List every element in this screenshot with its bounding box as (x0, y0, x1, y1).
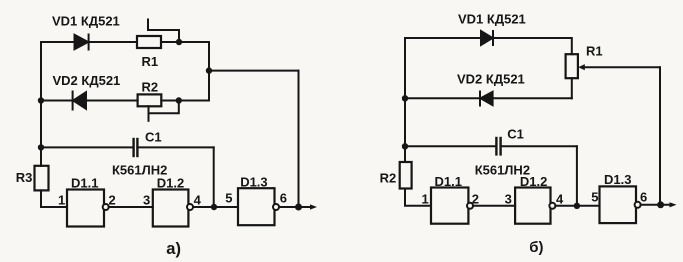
svg-text:6: 6 (640, 190, 647, 205)
svg-text:VD2 КД521: VD2 КД521 (53, 73, 121, 88)
inverter D1.2 a (153, 190, 193, 227)
wiper arrow R1 b (578, 64, 660, 70)
svg-text:C1: C1 (145, 130, 162, 145)
svg-text:5: 5 (591, 190, 598, 205)
node output wiper junction b (657, 201, 664, 208)
svg-text:VD1 КД521: VD1 КД521 (458, 12, 526, 27)
wire left vertical bus b (404, 38, 406, 162)
diode VD2 a (73, 92, 86, 110)
svg-text:R3: R3 (16, 170, 33, 185)
svg-text:D1.2: D1.2 (520, 174, 547, 189)
inverter D1.1 a (67, 190, 109, 227)
svg-text:D1.3: D1.3 (604, 172, 631, 187)
svg-text:б): б) (529, 239, 543, 256)
svg-text:4: 4 (194, 193, 202, 208)
wire second branch b (405, 97, 480, 99)
wire top branch left segment a (41, 41, 75, 43)
diode VD2 b (480, 92, 493, 106)
inverter D1.3 b (600, 186, 641, 223)
wire C1 left segment b (405, 145, 496, 147)
node left bus second branch junction a (38, 97, 44, 103)
inverter D1.3 a (238, 188, 279, 225)
svg-text:3: 3 (505, 192, 512, 207)
svg-text:R1: R1 (142, 54, 159, 69)
output arrow b (670, 202, 677, 207)
svg-text:D1.2: D1.2 (157, 176, 184, 191)
wire second branch left segment a (41, 100, 73, 102)
node C1 left junction b (402, 143, 408, 149)
wire R2 bottom to gate input b (405, 189, 431, 206)
wire D1.1 out to D1.2 in b (473, 205, 515, 207)
svg-text:5: 5 (225, 191, 232, 206)
wire feedback vertical to output a (298, 71, 300, 207)
svg-text:4: 4 (556, 192, 564, 207)
node R2 output junction (176, 97, 182, 103)
capacitor C1 a (134, 139, 138, 156)
wire R2 right segment (161, 100, 209, 102)
svg-text:1: 1 (58, 193, 65, 208)
output arrow a (310, 204, 317, 209)
diode VD1 b (481, 31, 493, 45)
svg-text:а): а) (166, 240, 181, 258)
resistor R2 a (138, 94, 162, 106)
node C1 left junction a (38, 144, 44, 150)
wire VD2 to R1 bottom b (493, 97, 572, 99)
svg-text:C1: C1 (507, 127, 524, 142)
svg-text:VD1 КД521: VD1 КД521 (52, 14, 120, 29)
svg-text:D1.3: D1.3 (240, 175, 267, 190)
wire R1 wiper tap (148, 20, 179, 43)
svg-text:2: 2 (472, 192, 479, 207)
wire VD1 to R1 (89, 41, 137, 43)
svg-text:2: 2 (109, 193, 116, 208)
wire R1 bottom to second branch b (571, 78, 573, 98)
wire R1 right segment (161, 41, 209, 43)
wire C1 right segment b (501, 145, 577, 147)
wire output a (279, 206, 311, 208)
inverter D1.2 b (515, 188, 555, 224)
wire D1.2 out to D1.3 in (193, 206, 238, 208)
svg-text:D1.1: D1.1 (71, 176, 98, 191)
node left bus second branch junction b (402, 95, 408, 101)
wire D1.2 out to D1.3 in b (555, 205, 599, 207)
svg-text:D1.1: D1.1 (435, 174, 462, 189)
wire branches merge vertical a (208, 42, 210, 101)
inverter D1.1 b (431, 188, 473, 224)
svg-text:1: 1 (422, 192, 429, 207)
resistor R3 a (35, 166, 49, 191)
svg-text:6: 6 (280, 191, 287, 206)
wire D1.1 out to D1.2 in (109, 206, 153, 208)
svg-text:R2: R2 (380, 171, 397, 186)
wire left vertical bus a (40, 42, 42, 166)
wire top branch left segment b (405, 37, 481, 39)
diode VD1 a (75, 35, 89, 50)
node output feedback junction a (295, 204, 302, 211)
node C1 feedback junction on gate chain a (211, 204, 217, 210)
wire VD2 to R2 (86, 100, 138, 102)
wire C1 drop to gate chain a (213, 147, 215, 207)
wire feedback horizontal a (209, 70, 299, 72)
svg-text:R1: R1 (586, 44, 603, 59)
wire R3 bottom to gate input a (41, 190, 67, 207)
node C1 feedback junction on gate chain b (574, 203, 580, 209)
wire output b (641, 204, 671, 206)
resistor R1 b (566, 54, 578, 78)
wire VD1 to R1 corner b (493, 38, 572, 54)
wire C1 left segment a (41, 146, 133, 148)
svg-text:VD2 КД521: VD2 КД521 (457, 72, 525, 87)
wire C1 right segment a (137, 146, 213, 148)
resistor R1 a (137, 36, 161, 48)
svg-text:R2: R2 (142, 80, 159, 95)
wire wiper vertical to output b (659, 67, 661, 205)
wire R2 wiper tap (149, 101, 179, 121)
resistor R2 b (400, 162, 412, 189)
svg-text:3: 3 (143, 193, 150, 208)
node feedback mid junction a (206, 67, 212, 73)
node R1 output junction (176, 39, 182, 45)
wire C1 drop to gate chain b (576, 146, 578, 206)
capacitor C1 b (496, 138, 500, 154)
